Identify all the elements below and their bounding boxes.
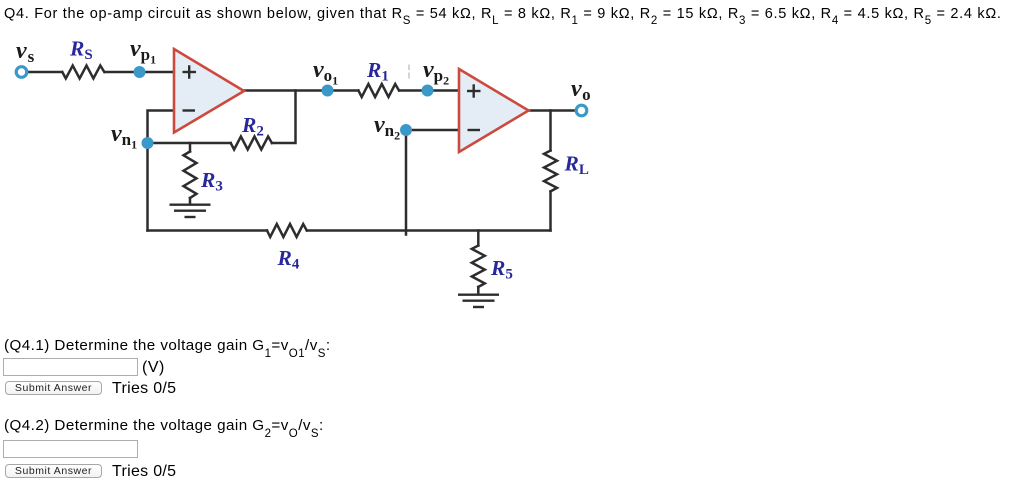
svg-text:R2: R2 bbox=[241, 113, 264, 140]
svg-text:vp1: vp1 bbox=[130, 36, 156, 67]
answer box Q4.2 bbox=[3, 440, 138, 458]
resistor RS bbox=[62, 66, 104, 79]
wire RS to op-amp U1 plus input (through node vp1) bbox=[105, 71, 174, 74]
node vp1 bbox=[134, 66, 146, 78]
resistor R2 bbox=[231, 137, 272, 150]
title text bbox=[4, 6, 1002, 22]
answer box Q4.1 bbox=[3, 358, 138, 376]
op-amp U1 bbox=[174, 49, 244, 133]
wire vs to RS bbox=[28, 71, 63, 74]
node vp2 bbox=[422, 85, 434, 97]
tries Q4.1 bbox=[112, 380, 176, 398]
ground for R5 bbox=[458, 295, 499, 307]
wire R2 to feedback vertical bbox=[272, 91, 296, 144]
question Q4.1 text bbox=[4, 337, 331, 354]
faint artifact mark bbox=[408, 65, 410, 79]
resistor R3 bbox=[184, 152, 197, 198]
svg-text:vp2: vp2 bbox=[423, 57, 449, 88]
resistor R1 bbox=[358, 84, 399, 97]
wire U1 output to op-amp U2 plus input (through vo1, R1, vp2) bbox=[244, 89, 358, 92]
wire U1 minus input to node vn1 bbox=[148, 111, 175, 144]
svg-text:vn1: vn1 bbox=[111, 121, 137, 152]
svg-text:vo: vo bbox=[571, 76, 591, 104]
terminal vs bbox=[16, 67, 27, 78]
submit button Q4.2 bbox=[5, 464, 102, 478]
wire R5 to ground bbox=[477, 287, 480, 294]
resistor R4 bbox=[267, 224, 307, 237]
wire vn1 down to bottom rail bbox=[146, 143, 149, 231]
wire output to RL bbox=[549, 111, 552, 151]
svg-text:R3: R3 bbox=[200, 168, 223, 195]
svg-text:vs: vs bbox=[16, 38, 35, 66]
svg-text:vo1: vo1 bbox=[313, 57, 338, 88]
bottom rail left segment bbox=[148, 229, 268, 232]
resistor R5 bbox=[472, 246, 485, 287]
svg-text:RL: RL bbox=[564, 152, 589, 179]
submit button Q4.1 bbox=[5, 381, 102, 395]
svg-text:vn2: vn2 bbox=[374, 112, 400, 143]
node vn2 bbox=[400, 124, 412, 136]
wire R3 top bbox=[189, 143, 192, 152]
svg-text:RS: RS bbox=[69, 37, 93, 64]
wire R5 top bbox=[477, 231, 480, 246]
wire vn2 to U2 minus input bbox=[406, 129, 459, 132]
node vn1 bbox=[142, 137, 154, 149]
svg-text:R5: R5 bbox=[490, 256, 513, 283]
tries Q4.2 bbox=[112, 463, 176, 481]
wire vn2 down to bottom rail bbox=[405, 130, 408, 235]
svg-text:R1: R1 bbox=[366, 58, 389, 85]
wire R1 to U2 plus input bbox=[400, 89, 460, 92]
ground for R3 bbox=[170, 205, 211, 217]
wire R3 to ground bbox=[189, 198, 192, 204]
bottom rail right segment bbox=[307, 229, 551, 232]
resistor RL bbox=[544, 151, 557, 192]
op-amp U2 bbox=[459, 69, 529, 152]
question Q4.2 text bbox=[4, 417, 324, 434]
unit label (V) bbox=[142, 359, 165, 377]
wire RL to bottom rail bbox=[549, 192, 552, 231]
terminal vo bbox=[576, 105, 587, 116]
wire vn1 to R2 bbox=[148, 142, 231, 145]
svg-text:R4: R4 bbox=[277, 246, 300, 273]
wire U2 output to vo bbox=[529, 109, 575, 112]
node vo1 bbox=[322, 85, 334, 97]
